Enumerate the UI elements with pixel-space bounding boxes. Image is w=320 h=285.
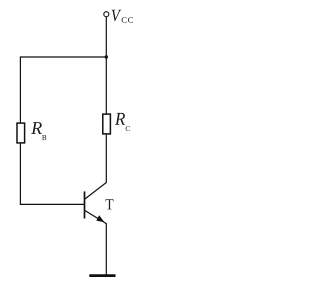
wire VCC to junction <box>105 17 107 57</box>
wire left lower vertical <box>19 144 21 205</box>
node junction <box>105 55 108 58</box>
wire RC to collector <box>105 135 107 183</box>
label T <box>106 199 114 209</box>
wire base horizontal <box>20 203 85 205</box>
wire junction to RC <box>105 57 107 114</box>
ground <box>89 274 115 277</box>
label VCC <box>112 10 133 23</box>
label RB <box>31 122 46 140</box>
label RC <box>115 113 130 131</box>
wire emitter vertical <box>105 223 107 276</box>
terminal VCC <box>104 12 109 17</box>
wire left upper vertical <box>19 56 21 123</box>
transistor T <box>85 182 107 223</box>
resistor RB <box>17 123 25 143</box>
resistor RC <box>103 114 111 134</box>
wire top horizontal <box>20 56 106 58</box>
